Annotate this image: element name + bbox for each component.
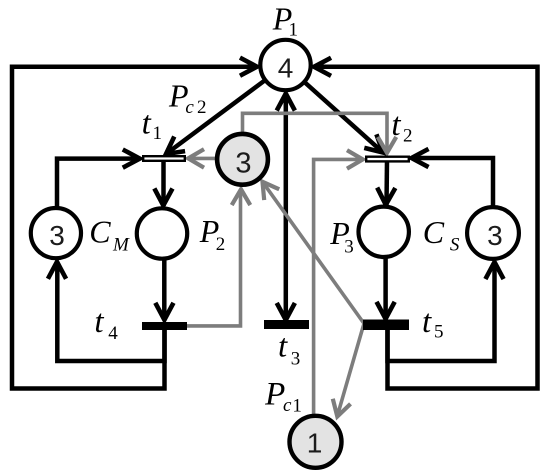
svg-text:2: 2 xyxy=(216,234,226,255)
svg-text:1: 1 xyxy=(289,19,299,40)
svg-text:t: t xyxy=(422,304,432,340)
svg-text:3: 3 xyxy=(487,220,503,251)
svg-text:c: c xyxy=(185,97,194,118)
svg-text:4: 4 xyxy=(108,323,118,344)
svg-text:3: 3 xyxy=(291,349,301,370)
svg-text:C: C xyxy=(89,214,111,250)
svg-text:3: 3 xyxy=(49,220,65,251)
svg-text:3: 3 xyxy=(344,237,354,258)
svg-text:S: S xyxy=(450,235,460,256)
svg-text:c: c xyxy=(283,395,292,416)
svg-text:2: 2 xyxy=(197,97,207,118)
svg-text:t: t xyxy=(142,106,152,142)
svg-text:1: 1 xyxy=(292,395,302,416)
svg-text:t: t xyxy=(94,304,104,340)
svg-text:5: 5 xyxy=(434,322,444,343)
svg-text:1: 1 xyxy=(307,428,323,459)
svg-text:2: 2 xyxy=(403,126,413,147)
svg-text:t: t xyxy=(391,107,401,143)
svg-text:C: C xyxy=(423,214,445,250)
svg-text:4: 4 xyxy=(278,53,294,84)
svg-text:M: M xyxy=(112,235,130,256)
svg-text:1: 1 xyxy=(153,123,163,144)
svg-text:3: 3 xyxy=(235,147,251,179)
svg-text:t: t xyxy=(278,329,288,365)
